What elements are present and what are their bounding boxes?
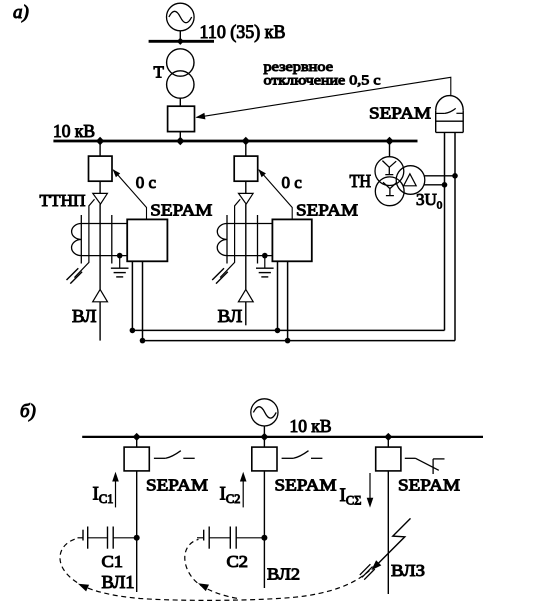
wye symbol winding 2 [383, 182, 397, 195]
CT TTNP core bar right [257, 215, 259, 264]
node 3U0 upper [452, 173, 458, 179]
CT secondary wire lower to SEPAM [81, 255, 127, 257]
cable termination upper (triangle down) [239, 193, 254, 204]
delta symbol winding 3 [404, 174, 417, 186]
wire 3U0 upper (delta to right leg) [424, 175, 455, 177]
wire breaker to cable termination [99, 181, 101, 193]
cable through CT [245, 204, 247, 289]
reserve trip wire from SEPAM head to breaker QT [196, 77, 451, 119]
svg-text:ВЛ: ВЛ [218, 306, 243, 326]
TH voltage transformer windings [375, 157, 425, 206]
node feeder tap section b x=137 [133, 433, 141, 441]
cable sheath wire through CT window [74, 199, 94, 277]
wire bus to feeder breaker [245, 141, 247, 156]
wire bus to TH [389, 141, 391, 157]
node SEPAM1 left leg [130, 328, 136, 334]
arrow current IC1 up [112, 472, 119, 508]
node 3U0 lower [442, 182, 448, 188]
svg-text:110 (35) кВ: 110 (35) кВ [200, 22, 286, 43]
CT TTNP core bar left [226, 215, 228, 264]
wire generator to 110kV bus [179, 31, 181, 40]
svg-text:ВЛ2: ВЛ2 [267, 565, 300, 584]
svg-text:SEPAM: SEPAM [296, 201, 358, 220]
svg-text:ВЛ: ВЛ [72, 306, 97, 326]
CT TTNP core bar left [80, 215, 82, 264]
fault point slash marks [360, 564, 375, 580]
cable termination lower (triangle up) [238, 289, 253, 301]
capacitor C2 (line capacitance) [197, 527, 264, 549]
lightning fault arrow on ВЛ3 [371, 518, 410, 570]
svg-text:10 кВ: 10 кВ [53, 121, 95, 141]
breaker box section b [376, 447, 401, 471]
SEPAM output leg right [142, 261, 144, 340]
svg-text:отключение 0,5 с: отключение 0,5 с [264, 74, 381, 89]
generator G section b [251, 399, 278, 426]
wire to overhead line ВЛ [99, 302, 101, 341]
wire 3U0 lower (delta to left leg) [424, 184, 445, 186]
breaker Q feeder [234, 156, 258, 181]
node C2 to ВЛ2 [261, 535, 267, 541]
svg-text:SEPAM: SEPAM [146, 476, 208, 495]
wire transformer to breaker [179, 98, 181, 106]
wire bus to breaker [387, 437, 389, 447]
svg-text:б): б) [20, 401, 36, 422]
svg-text:SEPAM: SEPAM [275, 476, 337, 495]
SEPAM output leg left [131, 261, 133, 330]
node feeder tap on 10kV bus x=100 [96, 137, 104, 145]
node SEPAM1 right leg [140, 338, 146, 344]
head device output leg left [444, 132, 446, 330]
cable through CT [99, 204, 101, 289]
dashed capacitive current path fault to C2 [185, 539, 237, 598]
svg-text:10 кВ: 10 кВ [290, 416, 332, 436]
wire breaker to 10kV bus [179, 132, 181, 140]
wire breaker to cable termination [245, 181, 247, 193]
node feeder tap section b x=388 [384, 433, 392, 441]
head device output leg right [454, 132, 456, 340]
CT secondary wire lower to SEPAM [227, 255, 272, 257]
cable sheath earth slash marks [212, 268, 228, 283]
node feeder tap on 10kV bus x=246 [242, 137, 250, 145]
bus 10 kV section b [82, 436, 483, 438]
wire ВЛ2 down [263, 471, 265, 588]
wire generator to bus b [263, 426, 265, 436]
switch closed (contact symbol) [405, 458, 445, 474]
arrow current IC2 up [240, 472, 247, 508]
trip wire 0 c from SEPAM to breaker [113, 169, 147, 219]
switch open (contact symbol) [154, 451, 195, 459]
node feeder tap section b x=264 [260, 433, 268, 441]
wye symbol winding 1 [382, 161, 396, 175]
label резервное отключение 0,5 с [264, 60, 381, 88]
svg-text:SEPAM: SEPAM [150, 201, 212, 220]
CT secondary wire upper to SEPAM [227, 223, 272, 225]
svg-text:Т: Т [154, 63, 165, 82]
svg-text:ВЛ1: ВЛ1 [102, 572, 135, 592]
svg-text:ВЛЗ: ВЛЗ [391, 561, 425, 580]
CT secondary winding arcs [217, 224, 227, 256]
SEPAM output leg right [287, 261, 289, 340]
svg-text:ТТНП: ТТНП [40, 191, 86, 210]
CT secondary wire upper to SEPAM [81, 223, 127, 225]
node transformer bay on 10kV bus [176, 137, 184, 145]
cable termination lower (triangle up) [93, 289, 108, 301]
cable sheath earth slash marks [67, 268, 83, 283]
breaker box section b [124, 447, 149, 471]
TH voltage transformer tap node [385, 137, 393, 145]
svg-text:С1: С1 [102, 552, 124, 571]
svg-text:0 с: 0 с [136, 173, 157, 192]
capacitor C1 (line capacitance) [78, 527, 137, 549]
bus 10 kV section a [53, 140, 417, 143]
output wire lower (to SEPAM head) [143, 340, 456, 342]
node C1 to ВЛ1 [134, 535, 140, 541]
svg-text:а): а) [13, 2, 29, 23]
svg-text:0 с: 0 с [282, 173, 303, 192]
svg-text:С2: С2 [227, 552, 249, 571]
SEPAM output leg left [277, 261, 279, 330]
wire bus to feeder breaker [99, 141, 101, 156]
svg-text:ТН: ТН [350, 171, 372, 191]
node transformer tap on 110kV bus [177, 38, 184, 45]
CT secondary winding arcs [72, 224, 82, 256]
node ground tap on secondary [117, 253, 123, 259]
trip wire 0 c from SEPAM to breaker [258, 169, 292, 219]
SEPAM head device (relay on transformer) [436, 96, 464, 133]
wire bus to breaker [136, 437, 138, 447]
cable sheath wire through CT window [220, 199, 240, 277]
SEPAM feeder relay box [127, 219, 167, 261]
dashed capacitive current path fault to C1 [60, 539, 370, 601]
breaker Q feeder [89, 156, 113, 181]
CT TTNP core bar right [111, 215, 113, 264]
switch open (contact symbol) [282, 451, 323, 459]
wire ВЛ3 down [387, 471, 389, 594]
breaker box section b [252, 447, 277, 471]
bus 110(35) kV [149, 40, 214, 43]
node ground tap on secondary [262, 253, 268, 259]
node SEPAM2 left leg [275, 328, 281, 334]
ground symbol [111, 256, 129, 277]
cable termination upper (triangle down) [93, 193, 108, 204]
svg-text:SEPAM: SEPAM [369, 104, 431, 123]
wire to overhead line ВЛ [245, 302, 247, 326]
output wire upper (to SEPAM head) [132, 329, 444, 331]
SEPAM feeder relay box [272, 219, 311, 261]
wire ВЛ1 down [136, 471, 138, 592]
generator G1 [167, 3, 195, 31]
transformer T [167, 49, 194, 98]
node SEPAM2 right leg [285, 338, 291, 344]
svg-text:SEPAM: SEPAM [398, 476, 460, 495]
breaker QT (transformer input) [168, 106, 195, 131]
ground symbol [256, 256, 274, 277]
arrow current IC sum down [367, 473, 374, 508]
wire bus to breaker [263, 437, 265, 447]
